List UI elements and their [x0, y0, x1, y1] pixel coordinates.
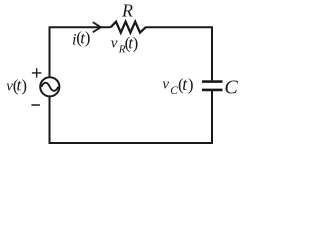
svg-text:): ) [188, 75, 194, 94]
svg-text:v: v [162, 77, 169, 93]
label vC(t) [162, 74, 193, 97]
capacitor C top plate [202, 80, 223, 83]
label vR(t) [111, 33, 139, 55]
wire: right lower riser, bottom segment, left lower riser [50, 91, 213, 143]
voltage source v(t) circle [40, 77, 59, 96]
minus sign [31, 104, 40, 106]
plus sign [32, 68, 42, 77]
wire: left upper riser and top-left segment to resistor [50, 27, 111, 76]
current arrow i(t) [93, 22, 101, 32]
label v(t) [6, 76, 27, 95]
svg-text:): ) [21, 76, 27, 95]
svg-text:C: C [224, 77, 238, 99]
svg-text:v: v [111, 36, 118, 52]
label i(t) [72, 28, 90, 49]
resistor R [111, 22, 146, 33]
svg-text:): ) [85, 28, 91, 47]
voltage source sine wave [41, 83, 58, 91]
capacitor C bottom plate [202, 89, 223, 92]
svg-text:): ) [133, 33, 139, 52]
wire: top-right segment from resistor and right upper riser to capacitor [145, 27, 212, 80]
svg-text:R: R [121, 1, 133, 21]
